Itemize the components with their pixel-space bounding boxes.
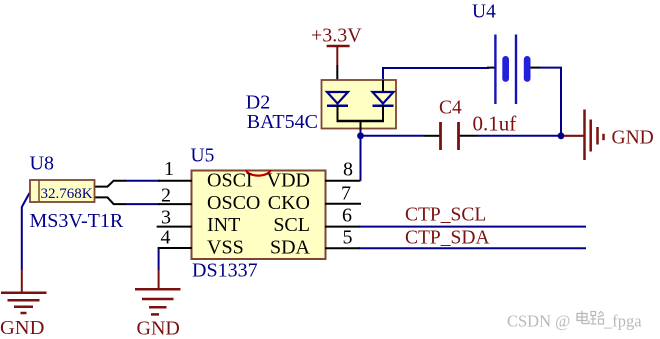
svg-text:GND: GND: [612, 128, 654, 149]
svg-text:OSCI: OSCI: [207, 169, 253, 191]
watermark glyph dian: [577, 311, 589, 324]
diode D2b (right): [373, 80, 394, 121]
svg-text:CSDN @: CSDN @: [507, 312, 570, 331]
pin number 1: [164, 158, 174, 180]
wire crystal pin to U5 pin 2: [95, 197, 160, 204]
pin number 5: [343, 227, 353, 249]
wire D2 cathode join: [337, 121, 385, 130]
ground right (battery): [564, 110, 654, 161]
junction node VDD: [357, 132, 364, 139]
svg-text:MS3V-T1R: MS3V-T1R: [30, 210, 124, 232]
pin name OSCO: [207, 192, 260, 214]
wire node VDD to C4: [361, 135, 425, 137]
watermark CSDN: [507, 312, 642, 331]
ground left (crystal): [0, 269, 47, 339]
svg-text:U4: U4: [472, 1, 496, 22]
svg-text:INT: INT: [207, 214, 240, 236]
svg-text:OSCO: OSCO: [207, 192, 260, 214]
svg-text:GND: GND: [0, 317, 44, 339]
svg-text:SDA: SDA: [270, 237, 311, 259]
svg-text:8: 8: [343, 158, 353, 180]
U5 pin 6 stub: [325, 226, 360, 228]
battery U4: [472, 1, 540, 104]
diode D2a (left): [327, 92, 348, 121]
U5 pin 5 stub: [325, 247, 360, 249]
svg-text:4: 4: [161, 227, 171, 249]
svg-text:2: 2: [161, 184, 171, 206]
pin number 7: [341, 183, 351, 205]
pin name VSS: [207, 237, 244, 259]
svg-text:U5: U5: [191, 146, 215, 167]
IC U5 body DS1337: [192, 171, 326, 260]
BAT54C value label: [247, 111, 318, 133]
junction node battery/GND: [558, 132, 565, 139]
wire D2 anode2 to battery U4: [383, 68, 489, 80]
watermark glyph lu: [591, 312, 605, 325]
svg-text:U8: U8: [30, 152, 54, 174]
net label CTP_SDA: [405, 228, 490, 249]
U5 pin-1 notch arc: [246, 170, 271, 176]
svg-text:1: 1: [164, 158, 174, 180]
wire crystal to ground (left): [22, 193, 30, 270]
U5 pin 7 stub: [325, 203, 361, 205]
svg-text:BAT54C: BAT54C: [247, 111, 318, 133]
svg-text:DS1337: DS1337: [192, 260, 258, 282]
net label CTP_SCL: [405, 204, 486, 225]
capacitor C4: [424, 98, 516, 151]
D2 label: [246, 92, 270, 114]
DS1337 value label: [192, 260, 258, 282]
pin number 4: [161, 227, 171, 249]
wire battery U4 to node GND-right: [540, 68, 561, 136]
pin name CKO: [268, 192, 310, 214]
pin number 8: [343, 158, 353, 180]
wire U5 pin 8 to node VDD: [360, 136, 362, 181]
svg-text:32.768K: 32.768K: [41, 186, 93, 202]
svg-text:+3.3V: +3.3V: [311, 25, 362, 47]
U5 label: [191, 146, 215, 167]
32.768K value: [41, 186, 93, 202]
U8 label: [30, 152, 54, 174]
pin name INT: [207, 214, 240, 236]
svg-text:D2: D2: [246, 92, 270, 114]
power +3.3V: [311, 25, 362, 93]
svg-text:SCL: SCL: [273, 214, 310, 236]
diode pack D2 BAT54C body: [322, 80, 397, 129]
wire C4 to node GND-right: [478, 135, 561, 137]
svg-text:CTP_SDA: CTP_SDA: [405, 228, 490, 249]
svg-text:VDD: VDD: [267, 169, 310, 191]
svg-text:CTP_SCL: CTP_SCL: [405, 204, 486, 225]
wire U5 pin 4 to ground: [158, 248, 160, 270]
MS3V-T1R label: [30, 210, 124, 232]
svg-text:6: 6: [342, 205, 352, 227]
ground middle (U5 VSS): [135, 270, 181, 339]
svg-text:C4: C4: [439, 98, 462, 119]
svg-text:CKO: CKO: [268, 192, 310, 214]
svg-text:5: 5: [343, 227, 353, 249]
svg-text:GND: GND: [137, 318, 180, 339]
pin number 6: [342, 205, 352, 227]
svg-text:VSS: VSS: [207, 237, 244, 259]
wire U5 pin 6 net CTP_SCL: [359, 226, 586, 228]
wire crystal pin to U5 pin 1: [95, 181, 160, 187]
pin name OSCI: [207, 169, 253, 191]
pin name SCL: [273, 214, 310, 236]
wire D2 cathode to node VDD: [360, 129, 362, 136]
svg-text:7: 7: [341, 183, 351, 205]
svg-text:0.1uf: 0.1uf: [473, 112, 517, 136]
pin number 3: [161, 206, 171, 228]
svg-text:_fpga: _fpga: [603, 312, 642, 331]
U5 pin 1 stub: [158, 180, 192, 182]
wire U5 pin 5 net CTP_SDA: [359, 247, 586, 249]
pin name VDD: [267, 169, 310, 191]
U5 pin 3 stub: [157, 226, 192, 228]
U5 pin 4 stub: [158, 247, 192, 249]
U5 pin 2 stub: [158, 203, 192, 205]
pin number 2: [161, 184, 171, 206]
pin name SDA: [270, 237, 311, 259]
svg-text:3: 3: [161, 206, 171, 228]
U5 pin 8 stub: [325, 180, 361, 182]
crystal U8 body: [30, 180, 95, 202]
